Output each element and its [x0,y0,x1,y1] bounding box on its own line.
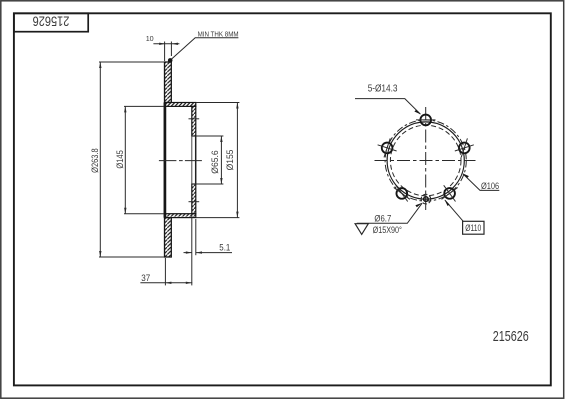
front view: bolt circle PCD Ø110 dash-dot [385,120,466,201]
section: friction rim bottom (hatched) [165,218,172,257]
dimension Ø263.8 (outer diameter) [90,62,164,257]
front view: horizontal centre line [375,160,476,162]
dimension Ø145 (hat inner diameter) [115,106,164,213]
section: bolt hole centre tick upper [189,118,200,120]
bolt hole right [455,138,474,157]
bolt hole top [416,115,436,126]
bolt hole lower left [394,185,410,201]
dimension Ø65.6 (centre bore) [192,136,223,184]
section: thick friction face line [164,103,167,218]
set screw hole Ø6.7 with countersink Ø15 [421,194,431,204]
section: centre bore edge lines [191,136,193,184]
svg-text:Ø65.6: Ø65.6 [210,150,221,173]
label 5-Ø14.3 with leader [355,84,421,115]
front view: hub face circle Ø106 solid [387,122,464,199]
dimension 5.1 (hub plate thickness) [184,215,233,285]
label Ø6.7 / Ø15X90 with machining triangle and leader [355,203,422,236]
title box top-left [14,13,88,31]
svg-text:215626: 215626 [32,14,69,30]
section: axis centre line [159,160,202,162]
dimension 37 (hat depth) [140,258,192,285]
svg-text:5.1: 5.1 [219,243,230,253]
svg-text:37: 37 [141,273,150,284]
svg-text:Ø110: Ø110 [465,222,481,233]
label Ø106 with leader [462,173,499,192]
section: hub plate lower part (hatched) [192,184,196,214]
dimension 10 (rim thickness) [146,34,180,61]
section: hat cylinder wall bottom (hatched) [165,214,196,218]
label Ø110 boxed with leader [445,200,485,235]
svg-text:Ø263.8: Ø263.8 [90,148,101,173]
dimension Ø155 (hat outer diameter) [196,103,240,218]
bolt hole upper left [378,138,397,157]
front view: vertical centre line [425,107,427,212]
svg-text:Ø6.7: Ø6.7 [374,214,391,224]
note MIN THK 8MM with leader and dot [168,32,239,63]
svg-text:Ø15X90°: Ø15X90° [373,225,402,236]
front view: hidden circle (dashed) [390,125,461,196]
section: hat cylinder wall top (hatched) [165,103,196,107]
svg-text:10: 10 [146,34,154,43]
svg-text:215626: 215626 [493,328,529,345]
svg-text:Ø145: Ø145 [115,150,126,168]
section: friction rim top (hatched) [165,62,172,103]
section: hub plate upper part (hatched) [192,106,196,136]
svg-text:5-Ø14.3: 5-Ø14.3 [368,84,398,95]
svg-text:Ø155: Ø155 [225,150,236,171]
section: bolt hole centre tick lower [189,201,200,203]
bolt hole lower right [442,185,458,201]
